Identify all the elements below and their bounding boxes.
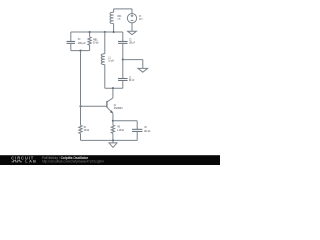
wire [71,50,90,52]
svg-text:1 H: 1 H [118,17,121,21]
wire [113,120,137,122]
wire [81,105,107,107]
wire [123,59,143,61]
resistor RB1 [88,32,98,51]
svg-text:30 nF: 30 nF [129,78,135,82]
wire [71,31,123,33]
ground [138,60,148,73]
capacitor C1 [118,60,134,89]
node [104,31,106,33]
svg-text:100 µF: 100 µF [78,41,86,45]
capacitor C2 [118,32,135,60]
CircuitLab logo [11,155,37,163]
svg-text:C4: C4 [78,37,81,41]
svg-text:10 µH: 10 µH [108,58,113,62]
svg-text:100 pF: 100 pF [144,129,151,133]
svg-text:LAB: LAB [25,159,37,164]
wire [80,51,82,126]
wire [104,65,106,89]
svg-text:1.25 kΩ: 1.25 kΩ [117,128,124,132]
footer bar [0,155,220,165]
svg-text:C6: C6 [144,125,147,129]
wire [104,32,106,54]
wire [112,88,114,98]
node [122,59,124,61]
ground [109,140,117,147]
svg-text:http://circuitlab.com/c/wfpmaw: http://circuitlab.com/c/wfpmawu47a72cq3k… [42,160,104,164]
svg-text:100 pF: 100 pF [129,40,135,44]
wire [114,8,132,10]
resistor R1 [79,125,89,140]
svg-text:2N3904: 2N3904 [114,106,123,110]
resistor RE [111,121,124,141]
inductor L1 [101,54,114,65]
svg-text:25 kΩ: 25 kΩ [84,128,89,132]
transistor Q1 [107,98,123,121]
node [89,31,91,33]
node [79,50,81,52]
node [112,87,114,89]
capacitor C4 [67,32,86,51]
node [112,120,114,122]
node [79,105,81,107]
wire [105,87,123,89]
capacitor C6 [132,121,151,141]
node [112,139,114,141]
voltage source V1 [127,9,142,31]
inductor RF1 [110,9,122,32]
wire [81,139,138,141]
svg-text:50 kΩ: 50 kΩ [93,40,98,44]
node [113,31,115,33]
svg-text:10 V: 10 V [139,17,143,21]
ground [128,31,137,34]
